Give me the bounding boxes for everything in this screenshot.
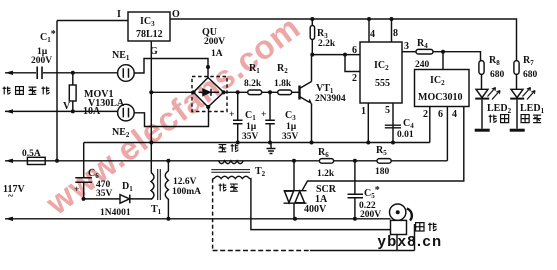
junction node (57,160.8) [55,159,59,163]
junction node (151.3,92.3) [149,90,153,94]
resistor R1 8.2k [248,90,262,95]
transistor VT1 2N3904 [298,86,300,100]
svg-text:400V: 400V [304,204,327,215]
svg-text:1µ: 1µ [246,122,257,132]
svg-text:~: ~ [8,191,14,202]
wire: NE2 to bridge bottom [134,107,208,127]
svg-text:V: V [63,101,71,112]
LED1 [511,89,523,97]
ground rail [84,142,430,144]
svg-text:5: 5 [385,105,390,116]
ground symbol [267,143,276,154]
junction node (208.2,107) [206,105,210,109]
IC2 MOC3010 box [415,70,470,107]
junction node (391.5,19) [390,17,394,21]
IC3 78L12 box [128,12,170,41]
svg-text:200V: 200V [360,210,381,220]
svg-text:+: + [74,185,79,195]
svg-text:200V: 200V [31,56,52,66]
triac SCR [293,161,295,191]
svg-text:100mA: 100mA [172,187,201,197]
D1 1N4001 line [84,198,121,200]
初级 [219,145,227,152]
capacitor C1 [237,92,239,120]
junction node (270,92.3) [268,90,272,94]
junction node (397.7,212.2) [396,210,400,214]
junction node (295,218.8) [293,217,297,221]
junction node (393,142.5) [391,141,395,145]
svg-text:1µ: 1µ [286,122,297,132]
R6 1.2k pill [319,159,333,164]
dashed box around bridge [192,77,227,112]
junction node (237.7,92.3) [236,90,240,94]
wire: 555 pins 4 and 8 to rail [368,19,370,42]
svg-text:4: 4 [452,109,457,120]
resistor R4 240 [416,49,433,54]
svg-text:1.2k: 1.2k [317,169,335,179]
svg-text:680: 680 [523,70,538,80]
svg-text:4: 4 [370,29,375,40]
svg-text:I: I [117,9,121,20]
wire: 555 pin3 to R4 [402,51,416,53]
junction node (311.5,142.5) [310,141,314,145]
svg-text:MOC3010: MOC3010 [418,92,462,103]
振铃 [489,115,497,123]
junction node (208,67) [206,65,210,69]
wire: C1* top wire to IC3 input [57,20,128,22]
junction node (369,19) [367,17,371,21]
LED2 [476,89,488,97]
wire: bridge right to R1 row [224,91,248,93]
svg-text:12.6V: 12.6V [173,177,197,187]
junction node (168.4,160.8) [166,159,170,163]
junction node (72.8,72.8) [71,71,75,75]
bell [390,204,406,220]
wire: NE1 to bridge top [134,59,208,78]
resistor R8 680 [479,61,484,75]
svg-text:200V: 200V [204,37,225,47]
phone line 2 wire with arrow [5,110,118,112]
wire: vertical from top wire down to 117V row [56,21,58,161]
junction node (354.9,218.8) [353,217,357,221]
junction node (294,160.8) [292,159,296,163]
junction node (270,142.5) [268,141,272,145]
电源 [521,115,529,123]
junction node (237.7,142.5) [236,141,240,145]
dashed bottom return line [213,250,310,252]
T2 transformer primary bumps [219,161,244,164]
capacitor C1* plates [37,67,42,80]
triac gate to MOC pin4 [302,107,464,191]
T1 transformer [158,169,161,200]
svg-text:+: + [261,110,266,120]
line arrows [5,71,13,75]
svg-text:35V: 35V [96,189,113,199]
svg-text:10A: 10A [83,106,101,117]
junction node (312.3,54.6) [310,53,314,57]
junction node (443,51.7) [441,50,445,54]
svg-text:3: 3 [404,41,409,52]
MOV1 varistor branch [72,73,74,112]
电铃 [416,223,424,231]
svg-text:2: 2 [423,109,428,120]
junction node (368.3,142.5) [366,141,370,145]
svg-text:78L12: 78L12 [136,29,163,40]
T2 secondary [214,176,250,178]
wire: collector node to 555 pin6 [312,54,360,56]
bridge inner diode [199,91,203,93]
wire: G pin vertical down to T1 [150,41,152,173]
svg-text:6: 6 [352,45,357,56]
svg-text:2: 2 [352,73,357,84]
svg-text:+: + [229,110,234,120]
junction node (354.9,160.8) [353,159,357,163]
至电话线 [3,87,542,231]
svg-text:2N3904: 2N3904 [315,94,346,104]
phone line 1 wire with arrow [5,72,36,74]
svg-text:ybx8.cn: ybx8.cn [378,233,443,250]
resistor R7 680 [514,61,519,75]
555 pin1 and pin5 verticals [367,103,369,143]
junction node (312.3,19) [310,17,314,21]
capacitor C3 [269,92,271,120]
svg-text:35V: 35V [282,132,299,142]
capacitor C4 0.01 [385,125,401,128]
svg-text:117V: 117V [3,184,25,195]
R5 180 pill [377,159,391,164]
capacitor C6 [75,178,92,182]
junction node (193.5,92.3) [191,90,195,94]
svg-text:1A: 1A [211,49,223,59]
wire: 12V output rail to top right corner [170,19,517,61]
resistor R2 1.8k [278,90,292,95]
svg-text:1N4001: 1N4001 [100,208,131,218]
svg-text:O: O [172,9,180,20]
junction node (83.5,198.9) [82,197,86,201]
bridge rectifier QU diamond [194,78,224,108]
capacitor C5 0.22 [354,161,356,195]
svg-text:680: 680 [490,70,505,80]
117V row with fuse [5,160,27,162]
watermark www.elecfans.com [38,8,307,222]
svg-text:240: 240 [415,60,430,70]
svg-text:G: G [150,46,158,57]
svg-text:0.5A: 0.5A [22,149,41,159]
junction node (151.3,142.5) [149,140,153,144]
neon lamp NE2 [118,104,135,121]
wire: MOC3010 pin1 [442,52,444,70]
svg-text:1: 1 [361,106,366,117]
次级 [219,184,227,192]
svg-text:8.2k: 8.2k [244,79,262,89]
junction node (345,54.6) [343,53,347,57]
bottom 117V rail [5,218,391,220]
svg-text:6: 6 [438,109,443,120]
svg-text:0.01: 0.01 [397,130,414,140]
wire: bridge left to ground vertical [151,91,193,93]
IC2 555 box [360,42,402,103]
resistor R3 2.2k [311,19,313,26]
wire: to 555 pin2 [345,55,360,72]
svg-text:35V: 35V [242,132,259,142]
junction node (223.6,92.3) [222,90,226,94]
svg-text:180: 180 [375,167,390,177]
neon lamp NE1 [118,65,135,82]
svg-text:2.2k: 2.2k [318,39,336,49]
svg-text:8: 8 [393,28,398,39]
junction node (168.4,218.8) [166,217,170,221]
svg-text:1.8k: 1.8k [274,79,292,89]
svg-text:555: 555 [375,78,390,89]
junction node (72.8,111.4) [71,109,75,113]
